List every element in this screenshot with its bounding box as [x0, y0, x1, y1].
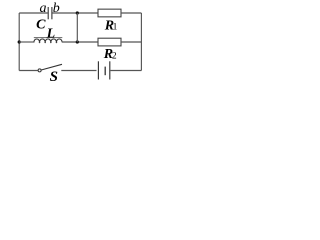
wire middle vertical link	[76, 13, 78, 42]
resistor R1	[98, 9, 121, 34]
svg-text:2: 2	[112, 51, 117, 61]
node junction top	[76, 11, 79, 14]
wire bottom-middle segment	[61, 70, 96, 72]
svg-text:1: 1	[113, 23, 118, 33]
svg-text:C: C	[36, 17, 46, 32]
svg-text:S: S	[50, 69, 58, 84]
node junction middle	[76, 40, 79, 43]
wire middle-right segment	[121, 41, 141, 43]
wire left border	[18, 13, 20, 71]
wire bottom-left segment	[19, 70, 38, 72]
svg-text:L: L	[46, 27, 56, 42]
capacitor C	[48, 7, 52, 19]
wire top-right segment	[121, 12, 141, 14]
wire bottom-right segment	[110, 70, 141, 72]
wire right border	[140, 13, 142, 71]
inductor L	[34, 27, 63, 44]
wire middle-center segment	[62, 41, 98, 43]
resistor R2	[98, 38, 121, 62]
svg-text:b: b	[53, 1, 60, 16]
switch S	[38, 64, 62, 85]
svg-text:a: a	[40, 1, 47, 16]
battery	[98, 61, 109, 79]
wire top-left segment	[19, 12, 48, 14]
node junction left-middle	[18, 40, 21, 43]
wire top-middle segment	[52, 12, 98, 14]
wire middle-left segment	[19, 41, 34, 43]
